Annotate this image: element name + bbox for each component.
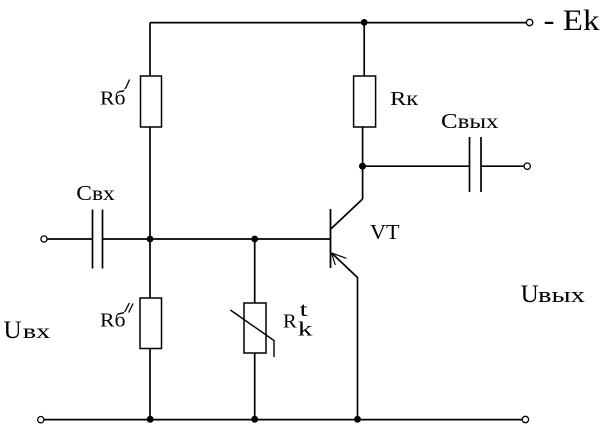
svg-text:U: U: [4, 317, 22, 344]
svg-text:U: U: [521, 281, 539, 308]
svg-text:- Ek: - Ek: [544, 4, 600, 37]
svg-text:R: R: [283, 310, 297, 332]
svg-text:вых: вых: [538, 282, 585, 307]
svg-text:вх: вх: [23, 319, 51, 343]
svg-text:t: t: [300, 299, 309, 321]
svg-text:Свых: Свых: [441, 109, 499, 133]
svg-text:VT: VT: [370, 220, 400, 244]
svg-text:Rб: Rб: [100, 309, 126, 331]
svg-text:Свх: Свх: [76, 181, 115, 205]
svg-text:k: k: [298, 319, 313, 341]
svg-text:Rк: Rк: [390, 88, 418, 110]
svg-text:Rб: Rб: [100, 88, 126, 110]
